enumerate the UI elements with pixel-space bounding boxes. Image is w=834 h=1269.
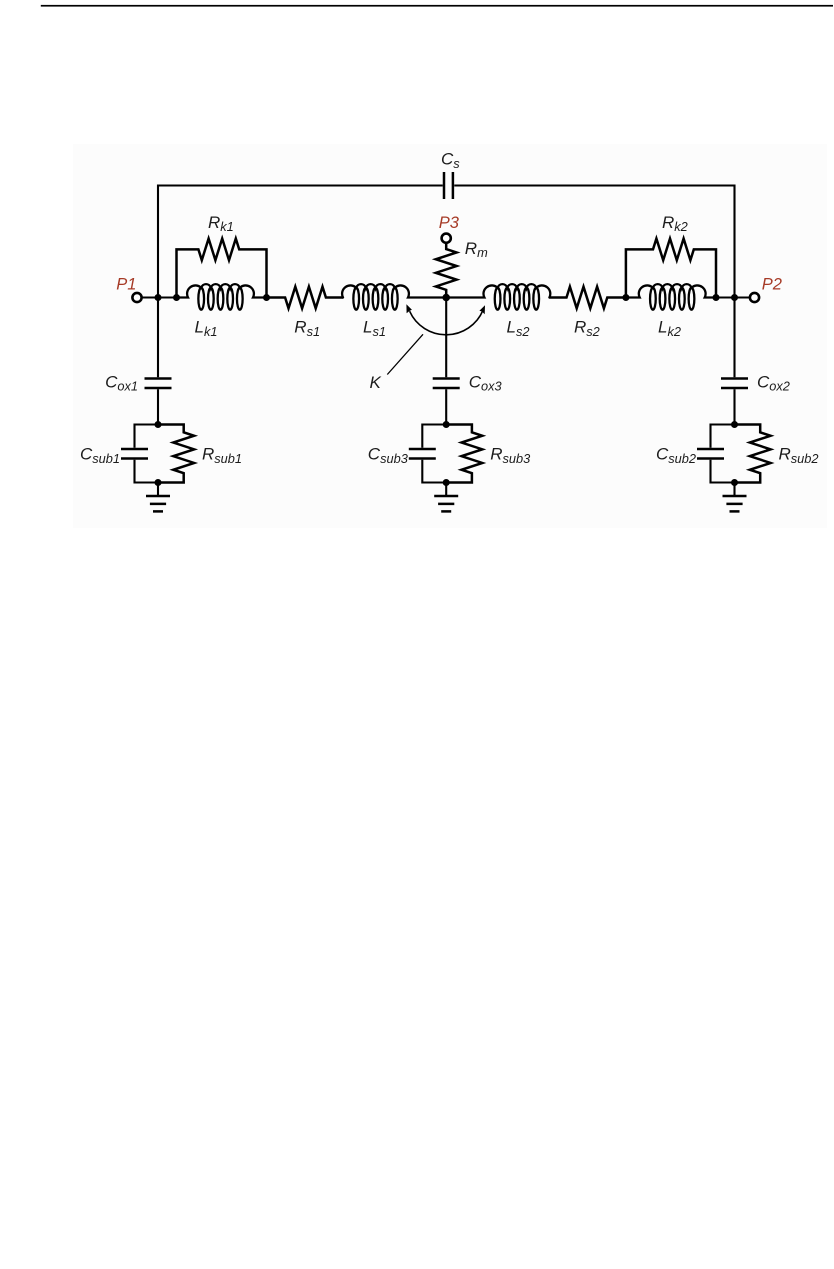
- wire P2 node down to Cox2: [733, 298, 735, 378]
- resistor Rk2 (parallel loop over Lk2): [626, 239, 716, 297]
- wire Cox2 to substrate node: [733, 389, 735, 424]
- resistor Rs2: [549, 287, 626, 309]
- junction: centre tap node: [442, 294, 450, 302]
- resistor Rsub2: [735, 425, 771, 483]
- wire P1 node down to Cox1: [157, 298, 159, 378]
- svg-text:K: K: [370, 373, 382, 392]
- junction: Lk1 block left node: [173, 294, 180, 301]
- ground (centre): [434, 483, 458, 512]
- junction: substrate node 1: [155, 421, 162, 428]
- junction: P1 wire / top loop / Cox1 branch: [155, 294, 162, 301]
- inductor Lk2: [626, 284, 716, 310]
- inductor Lk1: [177, 284, 267, 310]
- wire top loop right (Cs across and down to P2 node): [454, 186, 734, 298]
- junction: ground node 3: [443, 479, 450, 486]
- capacitor Csub2: [697, 449, 724, 459]
- svg-text:P1: P1: [116, 275, 136, 293]
- junction: Lk1 block right node: [263, 294, 270, 301]
- capacitor Cox2: [721, 379, 748, 389]
- wire Lk2 block to P2: [716, 296, 750, 298]
- wire top loop left (P1 node up and across to Cs): [158, 186, 443, 298]
- K pointer line: [387, 334, 423, 374]
- terminal P2: [750, 293, 759, 302]
- wire centre node down to Cox3: [445, 298, 447, 378]
- inductor Ls2: [446, 284, 550, 310]
- inductor Ls1: [342, 284, 446, 310]
- junction: P2 wire / top loop / Cox2 branch: [731, 294, 738, 301]
- junction: substrate node 2: [731, 421, 738, 428]
- capacitor Csub1: [121, 449, 148, 459]
- junction: ground node 2: [731, 479, 738, 486]
- wire Csub1 branch: [135, 425, 159, 483]
- capacitor Cs: [444, 172, 453, 199]
- junction: substrate node 3: [443, 421, 450, 428]
- capacitor Csub3: [409, 449, 436, 459]
- capacitor Cox3: [433, 379, 460, 389]
- resistor Rsub1: [158, 425, 194, 483]
- junction: Lk2 block left node: [622, 294, 629, 301]
- wire Csub3 branch: [422, 425, 446, 483]
- resistor Rm: [436, 243, 457, 298]
- coupling arrow K (arc with two arrowheads): [406, 304, 485, 335]
- resistor Rk1 (parallel loop over Lk1): [177, 239, 267, 297]
- wire P1 to Lk1 block: [142, 296, 177, 298]
- junction: ground node 1: [155, 479, 162, 486]
- ground (left): [146, 483, 170, 512]
- junction: Lk2 block right node: [713, 294, 720, 301]
- svg-text:P2: P2: [762, 275, 782, 293]
- resistor Rsub3: [446, 425, 482, 483]
- wire Csub2 branch: [711, 425, 735, 483]
- resistor Rs1: [267, 287, 344, 309]
- capacitor Cox1: [145, 379, 172, 389]
- wire Cox1 to substrate node: [157, 389, 159, 424]
- ground (right): [723, 483, 747, 512]
- terminal P3: [442, 234, 451, 243]
- svg-text:P3: P3: [439, 214, 460, 232]
- terminal P1: [132, 293, 141, 302]
- wire Cox3 to substrate node: [445, 389, 447, 424]
